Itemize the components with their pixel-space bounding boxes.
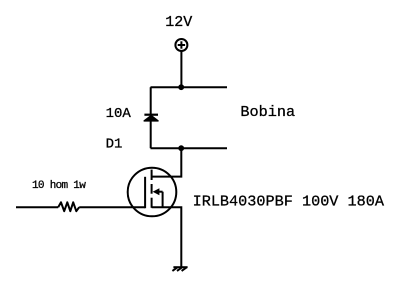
ground — [172, 267, 187, 271]
svg-text:10A: 10A — [106, 106, 132, 122]
diode D1 — [144, 116, 158, 121]
svg-text:IRLB4030PBF 100V 180A: IRLB4030PBF 100V 180A — [193, 193, 385, 211]
transistor Q1 gate bar — [144, 177, 146, 208]
wire drain — [152, 148, 182, 176]
svg-text:10 hom 1w: 10 hom 1w — [32, 180, 86, 192]
svg-text:D1: D1 — [106, 136, 123, 152]
svg-text:Bobina: Bobina — [240, 103, 295, 121]
wire diode branch — [150, 87, 152, 148]
transistor Q1 channel dashes — [151, 170, 153, 208]
wire bottom rail — [151, 147, 228, 149]
wire gate left — [16, 206, 58, 208]
transistor Q1 body circle — [128, 168, 177, 217]
diode D1 cathode bar — [144, 114, 158, 116]
wire top rail — [151, 86, 228, 88]
junction top rail — [178, 84, 184, 90]
wire gate right — [79, 206, 145, 208]
wire source — [152, 207, 182, 266]
junction bottom rail — [178, 145, 184, 151]
resistor R1 — [58, 202, 79, 211]
wire supply to top rail — [180, 51, 182, 87]
transistor Q1 bulk arrow — [153, 188, 163, 207]
svg-text:12V: 12V — [165, 14, 192, 31]
power terminal + — [175, 39, 187, 51]
